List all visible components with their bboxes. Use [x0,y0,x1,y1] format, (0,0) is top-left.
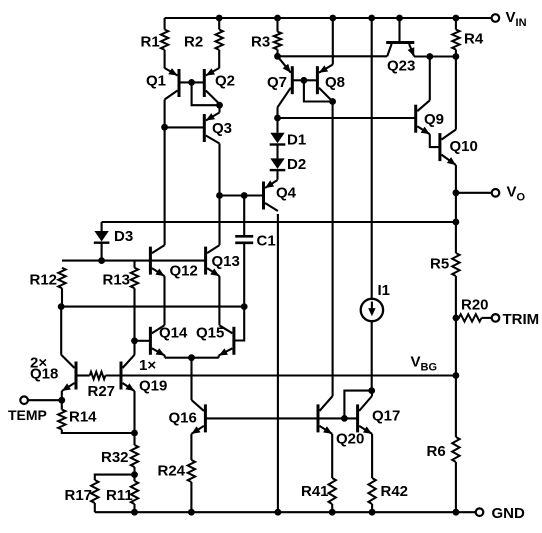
svg-text:Q12: Q12 [170,263,198,280]
wire D3 anode stub [101,222,103,231]
wire Q17 collector to base tie [344,391,371,419]
svg-text:Q1: Q1 [146,72,166,89]
wire R32 to R11 [133,467,135,481]
diode D1 [270,131,306,148]
svg-text:R3: R3 [251,34,270,51]
svg-text:R42: R42 [381,483,409,500]
svg-text:Q7: Q7 [267,74,287,91]
node C1 bottom rail [241,303,248,310]
transistor Q20 [318,396,364,447]
svg-text:Q23: Q23 [387,58,415,75]
svg-text:Q16: Q16 [169,410,197,427]
svg-text:Q3: Q3 [212,120,232,137]
resistor R4 [452,30,484,50]
wire R1 to Q1 emitter [164,50,166,69]
wire rail to Q23 base [398,18,400,41]
svg-text:Q8: Q8 [325,74,345,91]
node rail Q8 [329,15,336,22]
node ground R24 [188,509,195,516]
wire Q1 Q2 base tie [179,81,204,83]
svg-text:R6: R6 [427,443,446,460]
node base tie Q17 Q20 [341,415,348,422]
wire Q3 base to Q1 collector [165,126,205,128]
resistor R12 [30,268,66,289]
svg-text:D3: D3 [114,228,133,245]
wire GND stub [456,511,476,513]
resistor R42 [368,478,408,504]
wire Q8 collector down to Q20 [332,102,334,397]
node Q17 collector [368,387,375,394]
wire R3 top stub [276,18,278,32]
svg-text:Q4: Q4 [276,185,297,202]
resistor R6 [427,437,460,462]
wire R20 left stub [456,317,460,319]
wire R41 bottom stub [331,504,333,512]
capacitor C1 [235,232,275,249]
wire Q7 collector column [276,107,278,133]
node feedback right [453,219,460,226]
resistor R2 [184,30,223,51]
transistor Q23 [386,43,415,75]
transistor Q10 [440,130,478,166]
node ground Q4 [275,509,282,516]
transistor Q3 [204,105,232,195]
wire rail to I1 [371,18,373,299]
transistor Q2 [204,68,235,105]
wire R13 top stub [133,261,135,268]
wire Q10 collector column [455,57,457,130]
svg-text:Q20: Q20 [336,430,364,447]
net label V_BG [411,354,438,374]
wire R14 bottom to Q19 emitter [62,430,135,434]
resistor R1 [141,30,169,51]
svg-text:R2: R2 [184,34,203,51]
resistor R14 [58,408,97,429]
svg-text:R1: R1 [141,34,160,51]
node D3 cathode [98,257,105,264]
wire ground rail [95,511,456,513]
wire V_BG line left [76,374,90,376]
svg-text:R12: R12 [30,271,58,288]
node Q7 collector D1 [274,115,281,122]
wire V_BG line [105,374,456,376]
wire R24 bottom stub [190,482,192,512]
resistor R17 [65,480,99,504]
svg-text:1×: 1× [139,357,156,374]
wire Q17 collector stub [371,391,373,396]
node R32 R17 R11 [131,471,138,478]
node C1 top [241,192,248,199]
svg-text:Q13: Q13 [212,253,240,270]
node R4 bottom [453,53,460,60]
wire node to Q9 collector [429,57,431,101]
wire top V_IN rail [165,17,492,19]
wire Q18 emitter stub [61,391,63,400]
node ground R42 [369,509,376,516]
svg-text:R13: R13 [103,271,131,288]
svg-text:R20: R20 [461,296,489,313]
wire R17 bottom stub [94,503,96,512]
node Q7 Q8 bases [301,77,308,84]
wire R4 bottom stub [455,50,457,57]
wire bases to Q2 collector [192,82,220,105]
terminal TEMP [8,396,47,422]
transistor Q9 [416,100,444,134]
wire R4 top stub [455,18,457,30]
resistor R5 [430,253,460,276]
wire R1 top stub [164,18,166,30]
wire D3 feedback line [102,221,456,223]
wire bases to Q8 collector [304,80,333,101]
node Q14 base R13 [131,337,138,344]
wire R14 top stub [61,400,63,409]
node R14 Q19 emitter [131,430,138,437]
transistor Q13 [206,196,240,326]
terminal TRIM [492,311,539,328]
wire Q16 emitter to R24 [190,434,192,460]
wire Q9 base line [278,117,416,119]
wire Q4 collector to ground rail [277,214,279,512]
wire emitters down to Q16 collector [190,358,192,400]
wire C1 bottom stub [243,243,245,307]
svg-text:TRIM: TRIM [503,311,540,328]
terminal V_IN [492,9,527,29]
node ground R41 [329,509,336,516]
wire D1 D2 link [276,145,278,159]
wire R13 down to Q14 base node [133,288,135,341]
svg-text:R11: R11 [106,487,133,504]
current source I1 [361,282,390,321]
svg-text:Q10: Q10 [450,138,478,155]
wire R12 bottom stub [61,288,63,306]
wire R3 to Q23 emitter [278,55,388,57]
wire C1 top stub [243,196,245,237]
svg-text:Q2: Q2 [215,72,235,89]
wire R3 bottom stub [276,50,278,57]
resistor R27 [88,372,116,400]
diode D2 [270,156,306,173]
resistor R41 [301,478,336,504]
wire R2 top stub [218,18,220,30]
wire Q4 base line [220,194,264,196]
node ground R11 [131,509,138,516]
resistor R13 [103,268,139,289]
node Q23 collector [426,53,433,60]
svg-text:GND: GND [492,505,526,522]
node Q2 collector [216,102,223,109]
svg-text:R14: R14 [69,408,97,425]
node TEMP R14 [58,397,65,404]
wire mid rail [61,306,244,308]
node Q1 Q2 bases [188,79,195,86]
transistor Q19 [121,355,167,395]
svg-text:Q17: Q17 [372,408,400,425]
diode D3 [94,228,133,245]
svg-text:R32: R32 [101,449,129,466]
node Q3 collector C1 [216,192,223,199]
wire R2 to Q2 emitter [218,50,220,69]
transistor Q4 [264,180,297,211]
transistor Q16 [169,400,206,434]
node rail R4 [453,15,460,22]
wire rail to Q8 emitter [332,18,334,65]
transistor Q12 [150,245,197,325]
wire R42 bottom stub [371,504,373,512]
wire TEMP stub [28,399,62,401]
resistor R32 [101,445,138,467]
svg-text:Q14: Q14 [159,324,188,341]
svg-text:Q18: Q18 [30,365,58,382]
wire D2 to Q4 emitter [276,170,278,180]
wire Q7 Q8 base tie [292,79,317,81]
wire Q16 Q20 Q17 base line [205,417,357,419]
svg-text:R17: R17 [65,487,93,504]
resistor R3 [251,32,281,51]
svg-text:Q19: Q19 [139,378,167,395]
svg-text:R24: R24 [158,462,186,479]
wire Q23 collector to R4 [414,55,456,57]
wire Q14 base stub [135,340,151,342]
node TRIM [453,315,460,322]
wire Q1 collector column [164,100,166,246]
transistor Q8 [317,65,345,102]
wire V_O stub [456,192,492,194]
node rail Q23 [396,15,403,22]
node Q8 collector [329,98,336,105]
transistor Q17 [358,396,401,434]
wire Q18 collector column [60,307,62,355]
resistor R11 [106,481,138,504]
svg-text:R5: R5 [430,256,449,273]
wire Q9 emitter to Q10 base [430,134,440,147]
transistor Q1 [146,68,179,100]
wire Q19 emitter to R32 [133,391,135,445]
svg-text:R4: R4 [464,31,484,48]
terminal V_O [492,184,526,204]
svg-text:R41: R41 [301,483,329,500]
wire R32 node to R17 [95,475,135,480]
transistor Q15 [196,324,234,357]
wire I1 to node [371,322,373,391]
svg-text:D1: D1 [287,131,306,148]
node rail R2 [216,15,223,22]
wire right rail lower [455,462,457,512]
node R3 bottom [274,53,281,60]
wire D3 cathode stub [101,243,103,261]
svg-text:C1: C1 [257,232,276,249]
wire Q10 emitter column [455,165,457,193]
node rail R3 [274,15,281,22]
wire R11 bottom stub [133,504,135,512]
wire Q17 emitter to R42 [371,434,373,478]
resistor R20 [459,296,489,321]
node ground right rail [453,509,460,516]
wire right rail middle [455,276,457,437]
node V_O [453,189,460,196]
svg-text:I1: I1 [378,282,391,299]
node Q3 base [161,124,168,131]
node Q14 Q15 emitters [188,354,195,361]
resistor R24 [158,460,196,482]
transistor Q7 [267,56,292,107]
wire Q20 emitter to R41 [331,434,333,478]
wire C1 node to Q15 base [234,307,244,341]
wire Q14 Q15 emitter rail [165,357,219,359]
wire Q19 collector column [133,341,135,355]
svg-text:R27: R27 [88,383,116,400]
svg-text:Q15: Q15 [196,324,224,341]
node rail I1 [368,15,375,22]
transistor Q18 [30,354,76,391]
transistor Q14 [150,324,188,357]
wire R12 R13 base line [62,260,206,262]
node R12 bottom [58,303,65,310]
svg-text:D2: D2 [287,156,306,173]
wire right rail upper [455,193,457,253]
svg-text:Q9: Q9 [424,111,444,128]
node V_BG [453,372,460,379]
svg-text:TEMP: TEMP [8,407,47,423]
wire R20 right stub [482,317,492,319]
terminal GND [476,505,525,522]
